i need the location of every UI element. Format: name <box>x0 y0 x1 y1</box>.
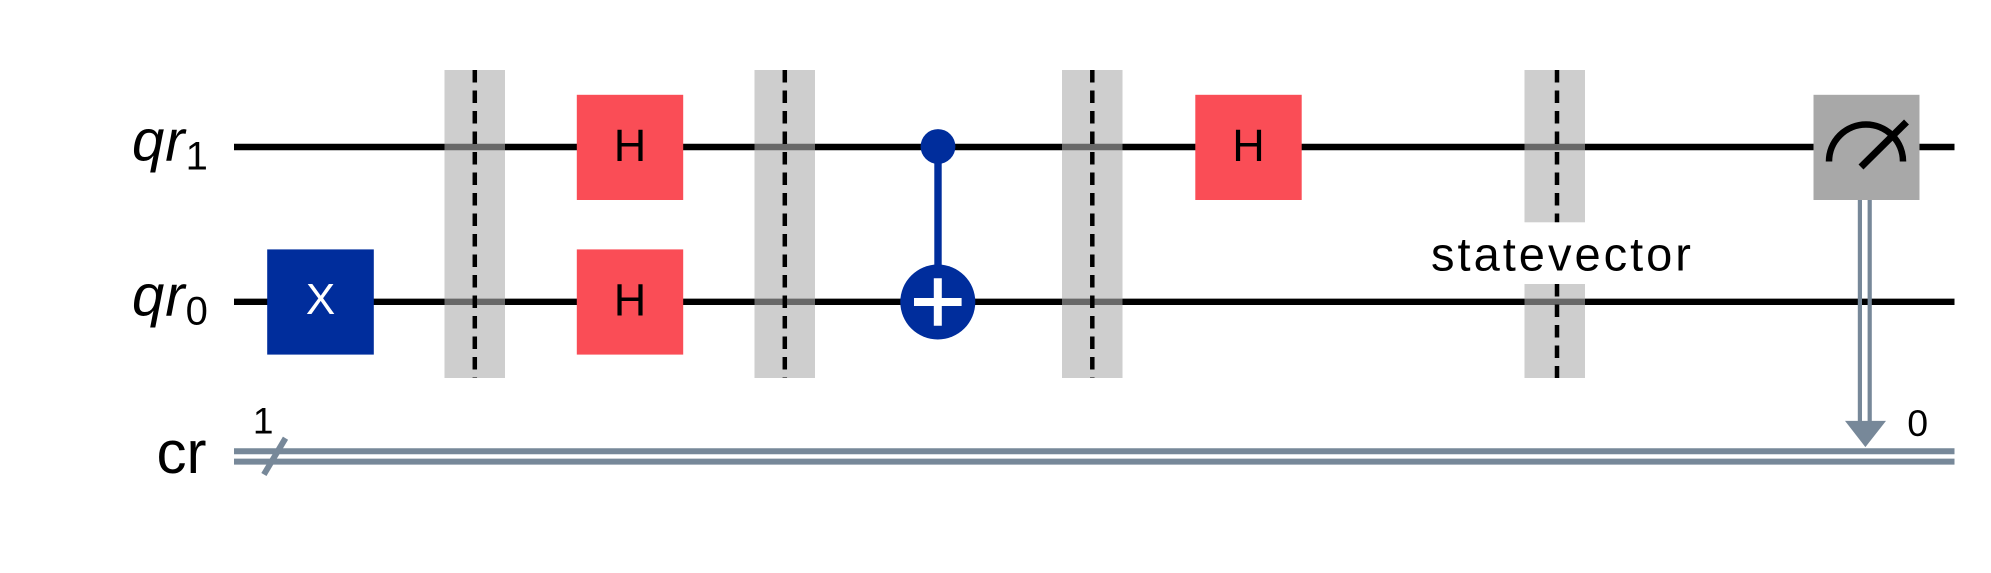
svg-text:X: X <box>306 275 335 324</box>
label qr1 <box>132 109 209 179</box>
arrowhead to cr <box>1845 421 1886 447</box>
gate H on qr1 (column 2) <box>577 95 683 200</box>
barrier B1 <box>445 70 506 378</box>
svg-text:qr1: qr1 <box>132 109 209 179</box>
gate X on qr0 <box>267 249 374 354</box>
svg-text:qr0: qr0 <box>132 263 209 333</box>
CNOT target on qr0 <box>900 265 975 340</box>
svg-text:H: H <box>1232 120 1265 171</box>
svg-text:0: 0 <box>1907 402 1928 444</box>
svg-text:statevector: statevector <box>1431 228 1694 281</box>
label cr <box>157 419 207 486</box>
CNOT control-target vertical wire <box>934 147 941 302</box>
CNOT control dot on qr1 <box>921 129 956 164</box>
barrier B4 statevector (upper section) <box>1525 70 1586 222</box>
cr bundle slash <box>264 438 286 474</box>
gate H on qr1 (column 4) <box>1195 95 1301 200</box>
svg-text:H: H <box>614 120 647 171</box>
gate H on qr0 (column 2) <box>577 249 683 354</box>
measurement gate on qr1 <box>1814 95 1920 200</box>
label qr0 <box>132 263 209 333</box>
svg-text:H: H <box>614 274 647 325</box>
barrier B3 <box>1062 70 1123 378</box>
wire qr1 <box>234 144 1955 150</box>
wire qr0 <box>234 299 1955 305</box>
svg-text:1: 1 <box>253 401 274 442</box>
svg-text:cr: cr <box>157 419 207 486</box>
classical wire cr (double line) <box>234 451 1955 461</box>
barrier B4 statevector (lower section) <box>1525 284 1586 378</box>
measurement classical double line to cr <box>1860 200 1870 428</box>
barrier B2 <box>755 70 816 378</box>
